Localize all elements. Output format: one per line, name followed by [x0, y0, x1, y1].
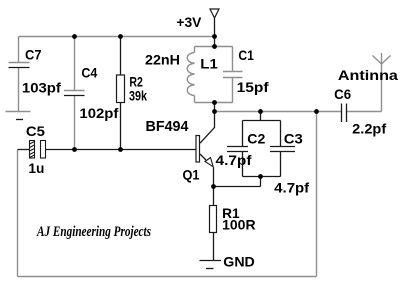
svg-text:C1: C1 — [238, 47, 254, 63]
svg-text:100R: 100R — [222, 216, 256, 232]
svg-text:15pf: 15pf — [237, 79, 269, 95]
svg-text:BF494: BF494 — [146, 118, 190, 135]
svg-text:C3: C3 — [284, 130, 303, 146]
svg-text:C7: C7 — [25, 47, 42, 63]
svg-text:2.2pf: 2.2pf — [352, 120, 386, 136]
svg-text:C4: C4 — [81, 65, 97, 81]
svg-text:102pf: 102pf — [79, 105, 118, 121]
svg-text:4.7pf: 4.7pf — [274, 180, 309, 196]
svg-text:4.7pf: 4.7pf — [216, 152, 252, 168]
svg-text:Q1: Q1 — [183, 167, 200, 183]
svg-text:39k: 39k — [129, 87, 147, 103]
svg-text:1u: 1u — [28, 160, 44, 176]
svg-text:C5: C5 — [26, 123, 45, 139]
svg-text:GND: GND — [223, 254, 255, 270]
svg-text:+3V: +3V — [176, 14, 202, 30]
svg-text:C2: C2 — [247, 130, 265, 146]
svg-text:103pf: 103pf — [22, 79, 61, 95]
svg-text:AJ Engineering Projects: AJ Engineering Projects — [36, 224, 151, 240]
svg-text:22nH: 22nH — [145, 52, 180, 68]
svg-text:L1: L1 — [200, 56, 218, 72]
svg-text:C6: C6 — [334, 86, 351, 102]
svg-text:Antinna: Antinna — [338, 67, 398, 83]
